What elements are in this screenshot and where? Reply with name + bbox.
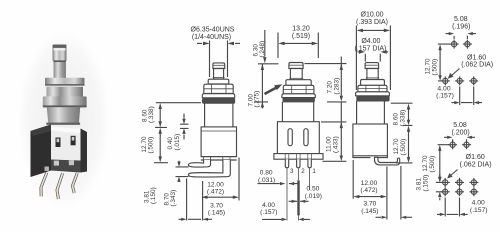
d3 dim dia4 line (365, 54, 380, 62)
svg-text:3.70: 3.70 (210, 202, 223, 209)
d1 washer (202, 94, 234, 98)
svg-text:(.472): (.472) (207, 189, 224, 196)
d2 washer (282, 94, 315, 98)
svg-text:4.00: 4.00 (262, 202, 275, 209)
d1 body bottom band (201, 157, 237, 160)
svg-text:(.500): (.500) (148, 137, 155, 154)
svg-text:5.08: 5.08 (454, 16, 468, 23)
photo: body slot left (56, 138, 61, 148)
d2 body slot left (288, 129, 292, 146)
photo: lower bushing (47, 107, 80, 125)
d1 body (201, 127, 236, 157)
layoutA hole T2 (463, 40, 472, 49)
layoutB hole T1 (448, 140, 457, 149)
d2 pin extension lines (287, 168, 310, 220)
svg-text:(.433): (.433) (333, 136, 340, 153)
svg-text:(.015): (.015) (174, 134, 181, 151)
d3 bushing collar (361, 80, 385, 86)
d2 hex nut (283, 85, 314, 94)
svg-text:(.500): (.500) (400, 139, 407, 156)
layoutA hole T1 (450, 40, 459, 49)
svg-text:Ø1.60: Ø1.60 (466, 154, 485, 161)
svg-text:12.00: 12.00 (361, 180, 378, 187)
svg-text:12.70: 12.70 (425, 58, 432, 74)
d2 pin 2 thick profile line (297, 180, 299, 215)
d3 hex nut (358, 85, 387, 92)
svg-text:(.343): (.343) (170, 190, 177, 207)
svg-text:(.157): (.157) (470, 207, 488, 214)
svg-text:12.70: 12.70 (393, 138, 400, 154)
photo: pin 3 (73, 173, 78, 193)
svg-text:4.00: 4.00 (472, 200, 485, 207)
d1 bent pin A (188, 160, 210, 167)
d3 dim dia10 line (356, 26, 390, 91)
d1 bent pin B (188, 160, 230, 177)
svg-text:0.80: 0.80 (260, 170, 273, 177)
svg-text:(.472): (.472) (360, 187, 377, 194)
svg-text:(.157): (.157) (436, 93, 454, 100)
d3 ext lines bottom (353, 160, 401, 220)
photo: body right dark face (81, 129, 88, 173)
svg-text:5.08: 5.08 (453, 122, 467, 129)
d3 plunger shaft (367, 69, 378, 80)
layoutA hole B2 (455, 76, 464, 85)
layoutA hole B3 (469, 76, 478, 85)
svg-text:11.00: 11.00 (326, 136, 333, 152)
photo: pin 1 (41, 173, 47, 197)
d2 body slot right (304, 129, 308, 146)
photo: pin 2 (57, 173, 63, 199)
layoutA leader arrow (452, 69, 460, 76)
d2 pin 3 (285, 159, 288, 168)
svg-text:4.00: 4.00 (437, 85, 450, 92)
layoutB hole L2 (455, 187, 464, 196)
d3 plunger cap (365, 63, 379, 69)
photo: hex nut (43, 96, 87, 106)
svg-text:(.150): (.150) (423, 175, 430, 192)
svg-text:Ø6.35-40UNS: Ø6.35-40UNS (191, 27, 235, 34)
d2 plunger cap (289, 63, 303, 69)
svg-text:(.145): (.145) (361, 208, 378, 215)
svg-text:1: 1 (312, 168, 316, 175)
svg-text:(.150): (.150) (150, 187, 157, 204)
svg-text:(.062 DIA): (.062 DIA) (460, 162, 492, 169)
photo: plunger shaft (54, 61, 66, 79)
layoutB leader arrow (451, 170, 458, 176)
layoutB hole L3 (469, 187, 478, 196)
svg-text:Ø1.60: Ø1.60 (467, 54, 486, 61)
d1 dim thread arrows (197, 42, 202, 44)
svg-text:3.81: 3.81 (416, 178, 423, 191)
svg-text:(.519): (.519) (292, 33, 310, 40)
svg-text:0.40: 0.40 (167, 137, 174, 150)
svg-text:(.196): (.196) (452, 23, 470, 30)
photo: body front light face (51, 127, 81, 161)
layoutB hole M3 (469, 178, 478, 187)
svg-text:(.031): (.031) (258, 177, 275, 184)
d3 body bottom band (353, 156, 388, 158)
svg-text:0.50: 0.50 (306, 186, 319, 193)
photo: body slot right (71, 136, 76, 146)
d1 plunger cap (213, 63, 225, 69)
svg-text:12.70: 12.70 (422, 155, 429, 171)
d1 pin level ticks and 3.81 arrows (176, 167, 189, 177)
d1 bushing collar (208, 79, 229, 84)
layoutB hole M2 (455, 178, 464, 187)
layoutB hole L1 (441, 187, 450, 196)
d2 lockwasher dark base (283, 98, 314, 102)
layoutB hole T2 (462, 140, 471, 149)
layoutB hole M1 (441, 178, 450, 187)
d1 lockwasher dark base (203, 99, 235, 104)
d1 plunger shaft (214, 69, 224, 80)
photo: threaded section (47, 86, 84, 97)
svg-text:(.338): (.338) (148, 106, 155, 123)
svg-text:7.20: 7.20 (327, 81, 334, 94)
d2 plunger shaft (290, 69, 302, 81)
d3 bent pin side view (375, 157, 400, 165)
photo: body left dark face (31, 125, 52, 178)
d2 pin 1 (308, 159, 311, 168)
d1 upper housing (205, 103, 233, 127)
svg-text:(.338): (.338) (400, 110, 407, 127)
d2 pin 2 (297, 159, 300, 168)
svg-text:(.393 DIA): (.393 DIA) (356, 19, 388, 26)
photo: pin root tabs (54, 161, 59, 166)
d3 upper housing (357, 101, 385, 124)
svg-text:(.275): (.275) (254, 91, 261, 108)
d2 leader thick arrow to nut (265, 88, 277, 95)
svg-text:(.200): (.200) (451, 129, 469, 136)
svg-text:(.500): (.500) (432, 59, 439, 76)
svg-text:Ø4.00: Ø4.00 (361, 38, 380, 45)
photo: flange ring (45, 78, 85, 85)
svg-text:Ø10.00: Ø10.00 (361, 11, 384, 18)
svg-text:12.00: 12.00 (207, 181, 224, 188)
d3 washer (356, 92, 390, 96)
svg-text:2: 2 (301, 168, 305, 175)
svg-text:8.60: 8.60 (393, 113, 400, 126)
svg-text:(.500): (.500) (429, 156, 436, 173)
layoutA hole B1 (441, 76, 450, 85)
photo: plunger cap (53, 45, 67, 62)
d3 body (353, 124, 388, 156)
photo: background halo (18, 30, 110, 210)
d1 dim thread extension lines (210, 41, 228, 78)
photo: body bottom band (51, 160, 81, 173)
svg-text:(.157): (.157) (260, 209, 277, 216)
d2 bottom flange (274, 154, 323, 160)
svg-text:(.062 DIA): (.062 DIA) (461, 62, 493, 69)
svg-text:(.019): (.019) (305, 193, 322, 200)
d1 hex nut (204, 84, 233, 93)
d1 ext lines bottom (187, 158, 239, 221)
svg-text:3.70: 3.70 (363, 201, 376, 208)
d2 upper housing (282, 102, 313, 122)
svg-text:(.283): (.283) (334, 78, 341, 95)
d2 bushing collar (286, 80, 311, 86)
d3 lockwasher dark base (357, 96, 389, 101)
svg-text:(1/4-40UNS): (1/4-40UNS) (192, 34, 231, 41)
svg-text:3: 3 (290, 168, 294, 175)
d2 body (277, 122, 319, 154)
svg-text:13.20: 13.20 (292, 26, 310, 33)
svg-text:(.145): (.145) (208, 210, 225, 217)
